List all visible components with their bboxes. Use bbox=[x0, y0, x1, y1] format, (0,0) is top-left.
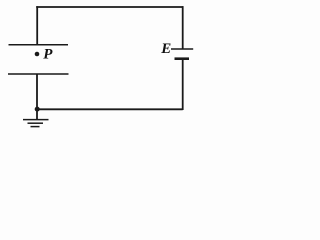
svg-text:P: P bbox=[43, 46, 53, 62]
svg-text:E: E bbox=[160, 41, 171, 57]
